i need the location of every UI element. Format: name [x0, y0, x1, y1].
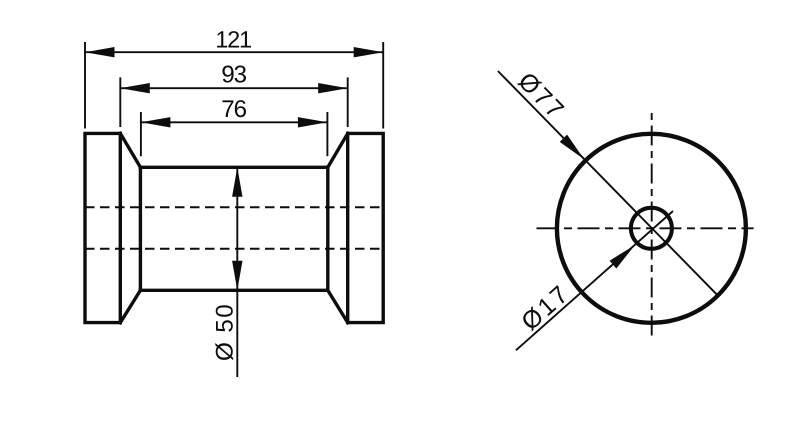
arrow dia50 down: [232, 261, 242, 291]
label dia50: [215, 305, 233, 360]
label 121: [217, 31, 251, 47]
barrel right edge: [326, 167, 329, 290]
ext line right 76: [326, 112, 328, 156]
dim line 121: [85, 51, 383, 53]
leader line dia77: [498, 71, 717, 295]
lower bore hidden line: [85, 248, 383, 250]
arrow 121 left: [85, 47, 115, 57]
hidden bore lines left view: [85, 207, 383, 249]
label dia77: [517, 71, 565, 120]
arrow 121 right: [354, 47, 384, 57]
bottom right taper: [328, 290, 348, 322]
label 76: [223, 100, 247, 117]
ext line left 93: [119, 77, 121, 127]
right flange inner edge: [346, 133, 349, 322]
barrel top edge: [140, 166, 327, 169]
dimension dia 50: [215, 167, 242, 377]
arrow 76 left: [141, 117, 171, 127]
left flange inner edge: [119, 133, 122, 322]
right flange outline: [348, 133, 384, 322]
bottom left taper: [120, 290, 140, 322]
left view spool outline: [85, 133, 383, 322]
barrel left edge: [139, 167, 142, 290]
arrow dia50 up: [232, 167, 242, 197]
ext line left 121: [84, 42, 86, 129]
ext line right 93: [347, 77, 349, 127]
upper bore hidden line: [85, 206, 383, 208]
label 93: [222, 66, 246, 83]
label dia17: [520, 285, 570, 332]
top right taper: [328, 133, 348, 167]
right view bore circle dia17: [631, 208, 672, 249]
dimension 121: [85, 31, 383, 128]
barrel bottom edge: [140, 289, 327, 292]
horizontal centerline: [537, 227, 754, 229]
top left taper: [120, 133, 140, 167]
dimension 93: [120, 66, 347, 128]
dim line dia50 vertical: [236, 167, 238, 377]
arrow dia17: [610, 245, 636, 269]
leader line dia17: [516, 211, 673, 350]
arrow dia77: [560, 135, 584, 160]
ext line right 121: [382, 42, 384, 129]
arrow 93 right: [318, 83, 348, 93]
dimension 76: [141, 100, 328, 156]
arrow 93 left: [120, 83, 150, 93]
leader dia77: [498, 71, 717, 295]
dim line 93: [120, 87, 347, 89]
centerlines right view: [537, 113, 754, 340]
left flange outline: [85, 133, 120, 322]
ext line left 76: [140, 112, 142, 156]
arrow 76 right: [298, 117, 328, 127]
vertical centerline: [651, 113, 653, 340]
right view outer circle dia77: [557, 134, 746, 323]
leader dia17: [516, 211, 673, 350]
dim line 76: [141, 121, 328, 123]
